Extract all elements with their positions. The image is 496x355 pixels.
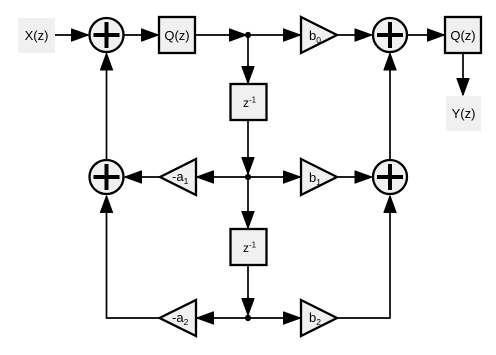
summer S2 (middle-left adder)	[90, 160, 124, 194]
wire gain a2 left and up to summer S2	[107, 196, 160, 318]
wire gain b2 right and up to summer S4	[337, 196, 390, 318]
wire node w0 down to delay Z1	[247, 35, 249, 83]
wire delay Z1 to node w1	[247, 120, 249, 174]
summer S4 (middle-right adder)	[373, 160, 407, 194]
wire node w2 to gain b2	[248, 317, 300, 319]
wire node w1 to gain b1	[248, 176, 300, 178]
wire node w1 to gain a1	[197, 176, 248, 178]
delay Z1 box z^-1	[231, 84, 267, 120]
node w2 junction dot	[245, 315, 251, 321]
node w1 junction dot	[245, 174, 251, 180]
svg-text:Q(z): Q(z)	[450, 28, 475, 43]
wire node w0 to gain b0	[248, 34, 300, 36]
wire gain b1 to summer S4	[337, 176, 372, 178]
gain b0 triangle	[301, 17, 337, 53]
wire summer S3 to quantizer Q2	[408, 34, 445, 36]
svg-text:Q(z): Q(z)	[164, 28, 189, 43]
wire quantizer Q2 to Y(z) label	[462, 53, 464, 95]
node w0 junction dot	[245, 32, 251, 38]
node X(z) input label	[18, 18, 55, 53]
quantizer Q2 box Q(z)	[445, 17, 481, 53]
wire summer S1 to quantizer Q1	[125, 34, 159, 36]
wire node w1 down to delay Z2	[247, 177, 249, 228]
svg-text:Y(z): Y(z)	[452, 106, 476, 121]
gain b2 triangle	[301, 300, 337, 336]
wire gain a1 to summer S2	[125, 176, 160, 178]
node Y(z) output label	[446, 96, 481, 131]
wire summer S4 up to summer S3	[389, 54, 391, 161]
wire X(z) to summer S1	[55, 34, 88, 36]
wire quantizer Q1 to node w0	[195, 34, 246, 36]
gain a2 triangle -a2	[160, 300, 197, 336]
gain b1 triangle	[301, 159, 337, 195]
summer S1 (top-left adder)	[90, 18, 124, 52]
quantizer Q1 box Q(z)	[159, 17, 195, 53]
summer S3 (top-right adder)	[373, 18, 407, 52]
delay Z2 box z^-1	[231, 229, 267, 265]
gain a1 triangle -a1	[160, 159, 196, 195]
wire node w2 to gain a2	[197, 317, 248, 319]
wire delay Z2 to node w2	[247, 265, 249, 315]
svg-text:X(z): X(z)	[25, 28, 49, 43]
wire gain b0 to summer S3	[337, 34, 372, 36]
wire summer S2 up to summer S1	[106, 54, 108, 161]
